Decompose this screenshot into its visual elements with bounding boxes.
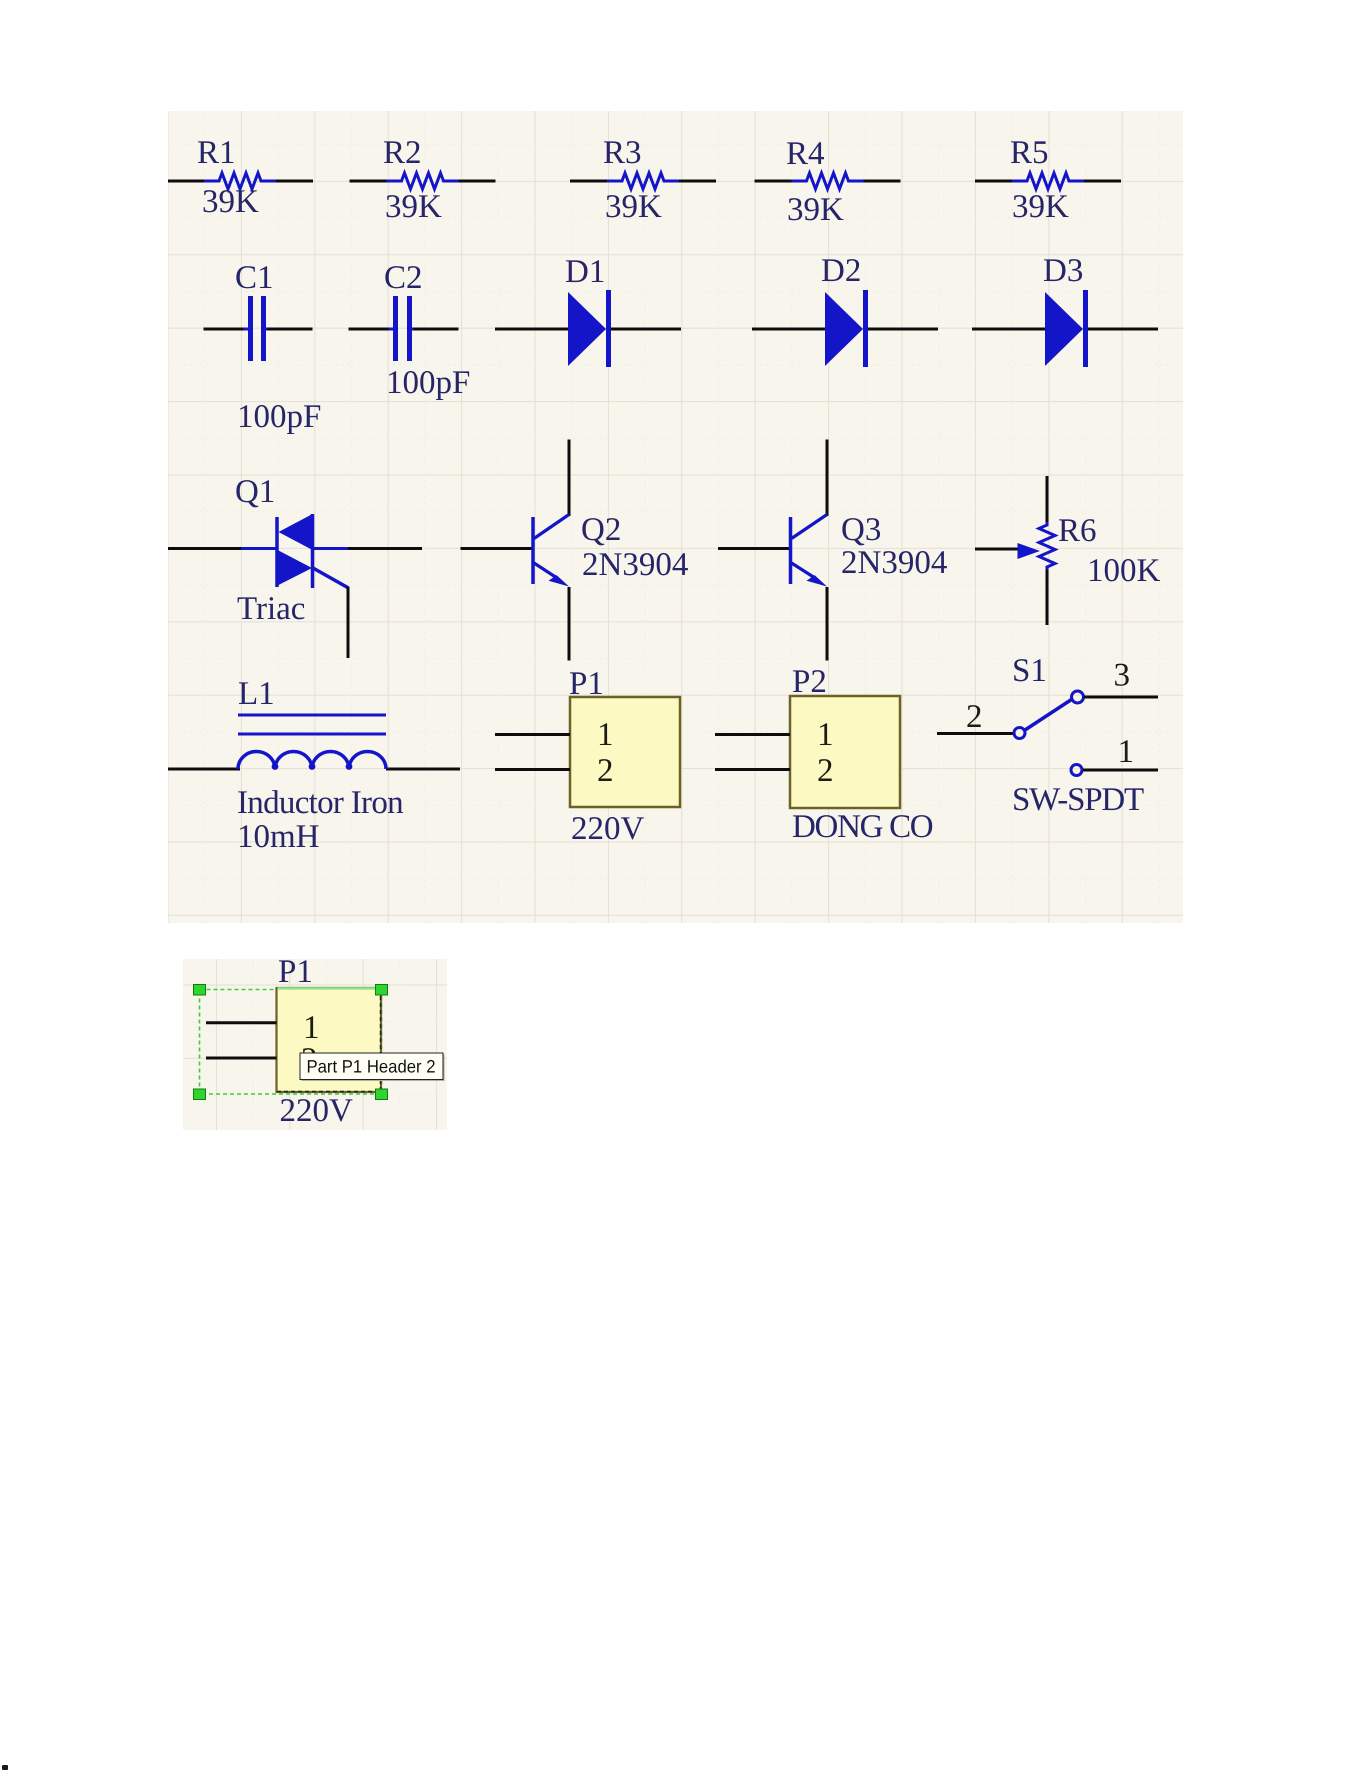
svg-text:39K: 39K: [202, 184, 259, 220]
svg-text:D1: D1: [565, 254, 605, 290]
svg-text:39K: 39K: [385, 189, 442, 225]
svg-text:220V: 220V: [571, 811, 645, 847]
svg-text:100K: 100K: [1087, 553, 1161, 589]
svg-text:L1: L1: [238, 676, 275, 712]
svg-text:P2: P2: [792, 664, 827, 700]
svg-text:P1: P1: [278, 959, 313, 990]
svg-text:1: 1: [303, 1010, 320, 1046]
svg-text:39K: 39K: [787, 192, 844, 228]
svg-text:10mH: 10mH: [237, 819, 320, 855]
svg-text:R4: R4: [786, 136, 825, 172]
svg-text:R6: R6: [1058, 513, 1097, 549]
svg-text:2: 2: [817, 753, 834, 789]
svg-text:3: 3: [1114, 658, 1131, 694]
svg-text:2N3904: 2N3904: [841, 545, 947, 581]
svg-text:DONG CO: DONG CO: [792, 809, 933, 845]
svg-text:100pF: 100pF: [386, 365, 470, 401]
svg-text:2N3904: 2N3904: [582, 547, 688, 583]
svg-text:1: 1: [817, 717, 834, 753]
svg-text:1: 1: [1118, 734, 1135, 770]
svg-text:Triac: Triac: [237, 591, 305, 627]
svg-text:R1: R1: [197, 135, 236, 171]
svg-text:2: 2: [597, 753, 614, 789]
svg-text:SW-SPDT: SW-SPDT: [1012, 782, 1144, 818]
svg-text:220V: 220V: [280, 1093, 354, 1129]
svg-text:D2: D2: [821, 253, 861, 289]
svg-text:Q1: Q1: [235, 474, 275, 510]
svg-text:R5: R5: [1010, 135, 1049, 171]
svg-text:39K: 39K: [1012, 189, 1069, 225]
svg-text:Part P1 Header 2: Part P1 Header 2: [307, 1057, 436, 1077]
svg-text:Q3: Q3: [841, 512, 881, 548]
svg-text:Q2: Q2: [581, 512, 621, 548]
svg-text:R3: R3: [603, 135, 642, 171]
svg-text:R2: R2: [383, 135, 422, 171]
svg-text:D3: D3: [1043, 253, 1083, 289]
svg-text:S1: S1: [1012, 653, 1047, 689]
svg-text:C1: C1: [235, 260, 274, 296]
svg-text:1: 1: [597, 717, 614, 753]
svg-text:P1: P1: [569, 666, 604, 702]
svg-text:39K: 39K: [605, 189, 662, 225]
svg-text:100pF: 100pF: [237, 399, 321, 435]
svg-text:2: 2: [966, 699, 983, 735]
svg-text:Inductor Iron: Inductor Iron: [237, 785, 403, 821]
svg-text:C2: C2: [384, 260, 423, 296]
